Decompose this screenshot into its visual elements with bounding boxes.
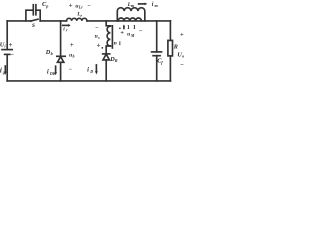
current arrow ii down	[4, 66, 6, 72]
wire top rail left segment	[7, 20, 31, 22]
resistor R lead lower	[169, 56, 171, 81]
svg-text:+: +	[9, 42, 13, 49]
svg-text:p: p	[45, 3, 48, 8]
svg-text:1: 1	[127, 25, 130, 31]
capacitor Cf plates	[152, 51, 162, 53]
svg-text:−: −	[87, 3, 91, 9]
svg-text:n: n	[114, 41, 117, 47]
diode D1 branch wire upper	[60, 21, 62, 56]
up arrow mark	[123, 26, 125, 28]
svg-text:f: f	[161, 60, 163, 65]
svg-text:i: i	[0, 67, 2, 75]
winding 1 (bottom coil on rail)	[118, 18, 141, 21]
winding n bottom jog	[106, 46, 110, 47]
wire top rail from Lr to output corner	[87, 20, 170, 22]
current arrow iDb down	[55, 66, 57, 72]
svg-text:−: −	[95, 25, 99, 31]
bottom rail	[7, 80, 170, 82]
svg-text:−: −	[69, 67, 73, 73]
svg-text:R: R	[115, 58, 118, 63]
svg-text:I: I	[133, 25, 136, 31]
svg-text:−: −	[11, 53, 15, 59]
winding n (vertical coil)	[107, 26, 110, 46]
svg-text:M: M	[130, 34, 135, 38]
current arrow iD down	[95, 65, 97, 72]
svg-text:R: R	[173, 43, 178, 50]
output corner riser	[169, 21, 171, 41]
svg-text:+: +	[70, 42, 74, 49]
diode D2 branch wire lower	[105, 60, 107, 81]
svg-text:i: i	[87, 67, 89, 74]
winding branch stub from rail	[106, 21, 110, 26]
svg-text:b: b	[73, 54, 75, 59]
transformer core bar	[111, 26, 113, 48]
svg-text:+: +	[97, 43, 101, 50]
svg-text:+: +	[180, 32, 184, 39]
svg-text:r: r	[66, 28, 68, 33]
svg-text:+: +	[120, 29, 124, 36]
diode D2 cathode bar	[103, 53, 110, 55]
source lower wire	[6, 55, 8, 81]
svg-text:D: D	[89, 69, 93, 74]
inductor Lr	[67, 18, 87, 21]
svg-text:+: +	[69, 3, 73, 10]
diode D2 wire	[105, 47, 107, 54]
svg-text:o: o	[182, 53, 184, 58]
svg-text:S: S	[32, 23, 35, 29]
polarity dot near winding bottom	[101, 47, 103, 49]
source Ui top plate	[2, 49, 12, 51]
svg-text:b: b	[51, 51, 53, 56]
svg-text:u: u	[127, 32, 130, 38]
capacitor Cf stem upper	[156, 21, 158, 52]
switch S blade	[31, 19, 38, 21]
inductor Lm top branch	[117, 8, 145, 21]
wire left vertical from source to top rail	[6, 21, 8, 50]
svg-text:−: −	[139, 28, 143, 35]
resistor R box	[168, 40, 173, 56]
diode D1 cathode bar	[57, 55, 65, 57]
capacitor Cp left riser	[26, 10, 33, 21]
svg-text:Db: Db	[49, 72, 55, 76]
diode D1 triangle	[57, 57, 63, 63]
svg-text:i: i	[4, 43, 6, 48]
svg-text:in: in	[3, 71, 6, 75]
wire top rail from switch to Lr	[40, 20, 66, 22]
polarity dot near core top	[119, 27, 121, 29]
svg-text:m: m	[155, 3, 159, 8]
current arrow im	[139, 3, 145, 5]
capacitor Cf stem lower	[156, 56, 158, 81]
current arrow ir	[63, 24, 69, 26]
svg-text:i: i	[152, 2, 154, 8]
diode D2 triangle	[103, 54, 109, 60]
diode D1 branch wire lower	[60, 62, 62, 81]
source Ui bottom plate	[5, 53, 10, 55]
svg-text:s: s	[97, 35, 100, 40]
svg-text:I: I	[119, 41, 121, 47]
svg-text:−: −	[180, 62, 184, 69]
svg-text:i: i	[47, 68, 49, 75]
capacitor Cp plates	[33, 5, 36, 15]
svg-text:r: r	[81, 13, 83, 18]
svg-text:Lr: Lr	[78, 5, 83, 10]
capacitor Cp right lead and riser	[36, 10, 40, 21]
